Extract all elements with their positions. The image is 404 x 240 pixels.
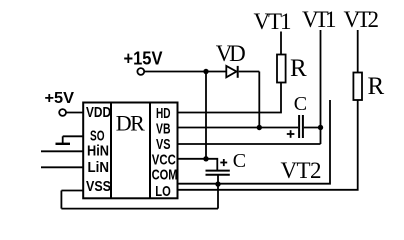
wire +5V to VDD pin: [66, 112, 83, 114]
svg-text:DR: DR: [116, 111, 145, 136]
svg-text:VT2: VT2: [344, 7, 380, 32]
wire SO step vertical: [62, 136, 64, 144]
svg-text:COM: COM: [152, 167, 178, 184]
svg-text:VD: VD: [216, 41, 246, 66]
wire LO pin to R2 corner: [178, 100, 358, 190]
wire VSS pin horizontal: [61, 190, 83, 192]
capacitor C2 plus sign: [220, 159, 227, 166]
svg-text:LO: LO: [155, 183, 171, 200]
IC right pin column divider: [149, 103, 151, 199]
junction node COM / C2 bottom: [215, 181, 220, 186]
svg-text:VB: VB: [156, 121, 171, 138]
wire +15V to diode anode: [144, 71, 226, 73]
wire diode cathode to drop: [239, 71, 260, 73]
wire VB pin to C1 left plate: [178, 127, 299, 129]
svg-text:HD: HD: [156, 105, 171, 122]
+5V terminal circle: [59, 109, 66, 116]
svg-text:C: C: [294, 93, 307, 115]
wire COM pin to right riser: [178, 100, 331, 184]
diode VD cathode bar: [237, 66, 239, 78]
wire LiN pin: [41, 166, 83, 168]
capacitor C2 bottom plate: [206, 174, 230, 176]
svg-text:LiN: LiN: [88, 159, 110, 176]
svg-text:HiN: HiN: [87, 143, 109, 160]
junction node VCC / +15V: [203, 156, 208, 161]
IC U1 DR driver outer box: [83, 103, 177, 199]
capacitor C1 right plate: [302, 115, 304, 138]
wire ground rail bottom: [61, 208, 218, 210]
wire VT2 stem above R2: [357, 30, 359, 73]
diode VD triangle: [226, 66, 236, 77]
wire VT1 stem above R1: [280, 32, 282, 55]
SO input signal bar: [56, 143, 71, 145]
svg-text:VDD: VDD: [86, 104, 111, 121]
wire VCC pin to C2 corner: [178, 159, 218, 170]
svg-text:C: C: [233, 150, 246, 172]
wire VS pin to corner: [178, 143, 321, 145]
wire diode drop to VB: [258, 72, 260, 128]
wire SO pin horizontal: [63, 135, 83, 137]
junction node VB / diode / C1: [257, 125, 262, 130]
svg-text:VS: VS: [156, 136, 171, 153]
svg-text:VT1: VT1: [254, 9, 292, 34]
capacitor C2 top plate: [206, 170, 230, 172]
svg-text:R: R: [368, 73, 385, 100]
wire HiN pin: [41, 150, 83, 152]
resistor R1 body: [277, 55, 286, 83]
resistor R2 body: [353, 73, 362, 101]
wire VSS drop vertical: [60, 191, 62, 209]
capacitor C1 plus sign: [287, 130, 295, 138]
capacitor C1 left plate: [298, 115, 300, 138]
svg-text:VT1: VT1: [302, 7, 337, 32]
junction node diode drop at +15V wire: [203, 69, 208, 74]
+15V terminal circle: [137, 68, 144, 75]
svg-text:+5V: +5V: [45, 90, 75, 107]
svg-text:VT2: VT2: [281, 158, 322, 183]
junction node VS / C1 / VT1: [318, 125, 323, 130]
wire VT1 second stem down to VS: [320, 30, 322, 144]
svg-text:+15V: +15V: [124, 49, 163, 69]
IC left pin column divider: [110, 103, 112, 199]
svg-text:R: R: [290, 55, 307, 82]
wire +15V drop to VCC: [205, 72, 207, 159]
wire rail riser to C2 bottom: [217, 175, 219, 209]
svg-text:VSS: VSS: [86, 178, 111, 195]
wire HD pin to VT1 gate corner: [178, 83, 282, 113]
wire C1 right plate to VS node: [304, 127, 321, 129]
